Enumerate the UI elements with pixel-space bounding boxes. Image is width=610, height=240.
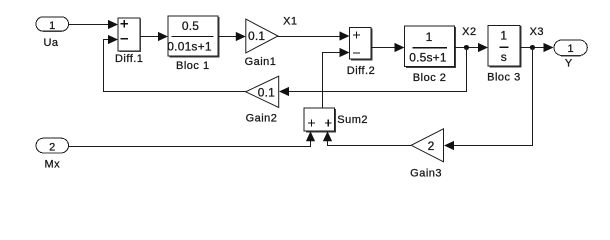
svg-text:0.1: 0.1 — [248, 29, 265, 43]
wire Sum2 up to Diff.2 minus input — [323, 48, 350, 108]
svg-text:1: 1 — [500, 28, 507, 42]
gain Gain3 (points left) — [411, 129, 443, 162]
input port In2 "2" — [36, 138, 69, 153]
svg-text:2: 2 — [428, 139, 435, 153]
wire Mx to Sum2 left bottom input — [69, 131, 316, 146]
svg-text:s: s — [501, 50, 507, 64]
input port In1 "1" — [36, 17, 69, 32]
svg-text:X2: X2 — [462, 26, 476, 38]
sum block Diff.1 — [118, 18, 141, 52]
svg-text:Diff.2: Diff.2 — [347, 65, 375, 77]
svg-text:0.5: 0.5 — [182, 19, 199, 33]
wire Diff.2 to Bloc 2 — [371, 43, 405, 52]
wire Bloc 3 to Out1 — [520, 43, 554, 52]
svg-text:Diff.1: Diff.1 — [115, 53, 143, 65]
svg-text:Gain3: Gain3 — [410, 168, 442, 180]
svg-text:Ua: Ua — [43, 37, 58, 49]
wire In1 to Diff.1 plus input — [69, 20, 119, 29]
node X2 junction dot — [464, 45, 469, 50]
node X3 junction dot — [530, 45, 535, 50]
svg-text:1: 1 — [426, 30, 433, 44]
svg-text:1: 1 — [568, 43, 574, 55]
feedback wire Gain2 to Diff.1 minus input — [104, 35, 246, 92]
svg-text:Bloc 3: Bloc 3 — [487, 72, 521, 84]
svg-text:X3: X3 — [530, 26, 544, 38]
svg-text:Bloc 2: Bloc 2 — [413, 72, 447, 84]
svg-text:Bloc 1: Bloc 1 — [176, 60, 210, 72]
svg-text:Sum2: Sum2 — [337, 114, 368, 126]
svg-text:1: 1 — [49, 20, 55, 32]
svg-text:Mx: Mx — [44, 158, 60, 170]
svg-text:Gain1: Gain1 — [245, 56, 277, 68]
sum block Sum2 — [304, 108, 335, 132]
svg-text:0.5s+1: 0.5s+1 — [409, 51, 447, 65]
wire Bloc 1 to Gain1 — [218, 32, 246, 41]
gain Gain1 — [246, 19, 278, 53]
sum block Diff.2 — [350, 28, 373, 61]
feedback wire X2 down and left to Gain2 — [279, 48, 467, 97]
transfer function Bloc 2 — [405, 26, 456, 68]
svg-text:0.1: 0.1 — [258, 85, 275, 99]
wire Gain3 to Sum2 right bottom input — [323, 131, 411, 145]
wire X3 down and left to Gain3 — [444, 48, 533, 151]
svg-text:Y: Y — [565, 57, 573, 69]
svg-text:0.01s+1: 0.01s+1 — [167, 39, 212, 53]
transfer function Bloc 1 — [167, 16, 219, 57]
svg-text:X1: X1 — [283, 16, 297, 28]
output port Out1 "1" — [554, 40, 587, 56]
integrator Bloc 3 — [488, 25, 521, 67]
gain Gain2 (points left) — [246, 76, 279, 107]
wire Diff.1 to Bloc 1 — [140, 32, 168, 41]
svg-text:2: 2 — [49, 141, 55, 153]
wire Bloc 2 to Bloc 3 — [455, 43, 489, 52]
wire X1: Gain1 to Diff.2 plus input — [278, 31, 350, 40]
svg-text:Gain2: Gain2 — [246, 112, 278, 124]
